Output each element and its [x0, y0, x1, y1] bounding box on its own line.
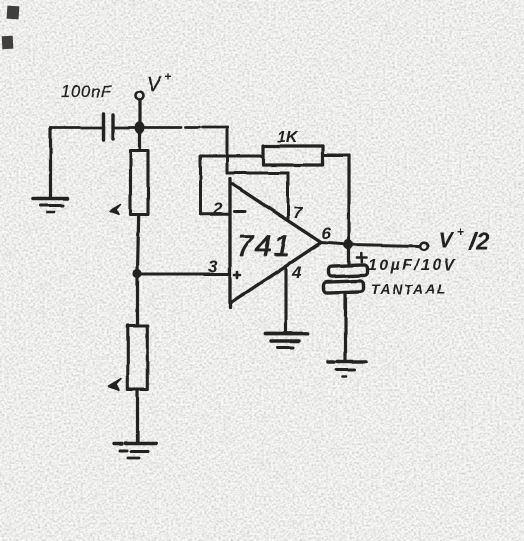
svg-text:7: 7 [293, 203, 304, 222]
svg-text:6: 6 [321, 224, 331, 243]
wire: output to terminal [349, 245, 420, 247]
feedback wire: up [199, 156, 202, 214]
wire: R2 to ground [136, 390, 139, 444]
wire: R1 to mid node [138, 215, 139, 271]
label V+/2 [438, 224, 490, 255]
svg-text:2: 2 [212, 199, 223, 218]
wire: junction to R1 [138, 132, 141, 150]
ground G1 [33, 199, 68, 213]
plus mark C2 [357, 253, 367, 262]
feedback wire: pin2 left [201, 212, 230, 215]
ground G4 [328, 362, 366, 377]
resistor R2 [128, 326, 148, 390]
node: output junction [344, 240, 354, 250]
wire: pin4 down [284, 266, 287, 331]
svg-text:+: + [457, 224, 465, 239]
wire: C1 right to junction [115, 126, 139, 129]
arrow mark at R2 [109, 379, 122, 391]
op-amp U1 triangle [230, 179, 321, 308]
capacitor C1 100nF [104, 114, 114, 140]
wire: rail corner down [226, 128, 229, 174]
wire: V+ terminal stem [138, 101, 141, 134]
plus mark pin3 [235, 272, 241, 278]
ground G2 [114, 444, 156, 459]
resistor R3 1K [263, 146, 323, 165]
resistor R1 [131, 151, 149, 215]
scan artifact marks top-left [2, 6, 20, 50]
C2 top plate [328, 265, 367, 277]
minus sign pin2 [235, 210, 246, 213]
svg-text:100nF: 100nF [61, 83, 112, 101]
wire: corner down to ground [49, 128, 52, 198]
svg-text:10µF/10V: 10µF/10V [368, 257, 457, 274]
svg-text:4: 4 [291, 263, 302, 282]
svg-text:741: 741 [237, 230, 292, 263]
svg-text:V: V [147, 74, 162, 96]
wire: rail junction right (dashed scan look) [140, 126, 227, 129]
terminal V+/2 [420, 242, 428, 250]
label V+ [147, 70, 172, 96]
wire: mid node to R2 [136, 274, 139, 325]
feedback wire: to R3 left [201, 155, 264, 158]
wire: pin7 vertical into op-amp [287, 173, 290, 220]
wire: C2 to ground [344, 293, 347, 361]
svg-text:+: + [165, 70, 172, 84]
node: V+ rail junction [135, 121, 145, 134]
wire: C1 left to corner [51, 126, 102, 129]
ground G3 [265, 334, 307, 348]
svg-text:3: 3 [208, 257, 218, 276]
wire: feedback down to output [347, 156, 350, 243]
svg-text:/2: /2 [468, 228, 490, 255]
svg-text:1K: 1K [277, 129, 299, 146]
C2 bottom plate [323, 281, 363, 293]
svg-text:TANTAAL: TANTAAL [371, 281, 448, 297]
wire: R3 right over [323, 154, 349, 157]
capacitor C2 tantalum [347, 244, 350, 264]
wire: pin3 horizontal [138, 273, 230, 276]
wire: over to pin7 drop [227, 172, 288, 175]
svg-text:V: V [438, 228, 455, 253]
node: divider midpoint [133, 269, 142, 278]
terminal V+ [136, 92, 144, 100]
arrow mark at R1 [110, 205, 121, 215]
wire: output from apex [321, 243, 348, 245]
